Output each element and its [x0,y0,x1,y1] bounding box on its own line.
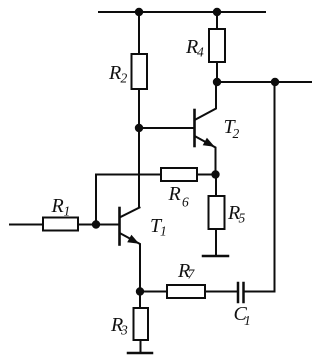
svg-text:2: 2 [121,71,128,86]
svg-text:5: 5 [239,211,246,226]
svg-text:1: 1 [160,224,167,239]
svg-text:1: 1 [64,204,71,219]
svg-text:6: 6 [182,195,189,210]
svg-text:1: 1 [244,313,251,328]
svg-text:R: R [108,62,121,84]
svg-text:4: 4 [197,45,204,60]
svg-text:R: R [168,183,181,205]
svg-text:3: 3 [120,323,128,338]
svg-text:2: 2 [233,126,240,141]
svg-text:R: R [51,195,64,217]
